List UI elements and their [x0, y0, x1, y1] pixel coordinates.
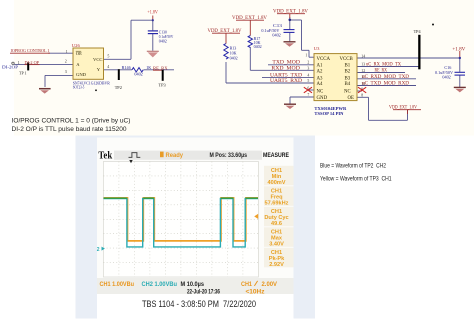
svg-text:7: 7 [307, 93, 309, 97]
svg-text:CH1: CH1 [241, 281, 252, 288]
svg-text:0.1uF/50V: 0.1uF/50V [159, 35, 174, 39]
svg-text:8: 8 [361, 94, 363, 98]
svg-text:GND: GND [76, 72, 87, 77]
svg-text:0402: 0402 [159, 40, 167, 44]
svg-text:RE_RX: RE_RX [375, 69, 388, 74]
svg-text:2.00V: 2.00V [262, 281, 278, 288]
svg-text:1: 1 [305, 54, 307, 58]
svg-text:TP3: TP3 [159, 83, 166, 88]
svg-text:SOT23-5: SOT23-5 [73, 84, 85, 89]
svg-text:0402: 0402 [230, 56, 238, 61]
svg-text:TSSOP 14 PIN: TSSOP 14 PIN [314, 111, 344, 116]
svg-text:12: 12 [361, 69, 365, 73]
svg-text:NC: NC [317, 89, 324, 94]
svg-text:13: 13 [361, 63, 365, 67]
svg-text:Blue = Waveform of TP2 CH2: Blue = Waveform of TP2 CH2 [320, 162, 386, 169]
svg-text:22-Jul-20 17:36: 22-Jul-20 17:36 [187, 289, 221, 295]
svg-text:2.92V: 2.92V [269, 262, 284, 268]
svg-text:IO/PROG CONTROL 1 = 0 (Drive b: IO/PROG CONTROL 1 = 0 (Drive by uC) [12, 117, 131, 124]
svg-text:B4: B4 [345, 82, 351, 87]
svg-text:VDD_EXT_1.8V: VDD_EXT_1.8V [273, 10, 309, 15]
svg-text:3.40V: 3.40V [269, 242, 284, 248]
svg-text:RE_RX: RE_RX [153, 65, 168, 70]
svg-text:B2: B2 [345, 70, 351, 75]
svg-text:U26: U26 [72, 43, 80, 48]
svg-text:uC_RXD_MOD_TXD: uC_RXD_MOD_TXD [362, 75, 410, 80]
svg-text:M 10.0µs: M 10.0µs [181, 281, 205, 288]
svg-text:TP 1: TP 1 [19, 70, 27, 75]
svg-text:UART5_RXD: UART5_RXD [270, 79, 303, 84]
svg-text:TBS 1104 - 3:08:50 PM 7/22/20: TBS 1104 - 3:08:50 PM 7/22/2020 [142, 299, 256, 309]
svg-text:14: 14 [361, 54, 365, 58]
svg-text:4: 4 [107, 64, 109, 69]
svg-text:UART5_TXD: UART5_TXD [270, 73, 303, 78]
svg-text:+1.8V: +1.8V [147, 11, 158, 16]
svg-text:U3: U3 [314, 46, 320, 51]
svg-text:A4: A4 [317, 82, 324, 87]
svg-text:A3: A3 [317, 76, 324, 81]
svg-text:Tek: Tek [98, 150, 112, 161]
svg-text:Ready: Ready [166, 152, 184, 159]
svg-text:2: 2 [97, 247, 100, 253]
svg-text:5: 5 [107, 54, 109, 59]
svg-text:2: 2 [65, 59, 67, 64]
svg-text:B3: B3 [345, 76, 351, 81]
svg-text:C130: C130 [159, 30, 167, 34]
svg-text:uC_RX_MOD_TX: uC_RX_MOD_TX [366, 62, 402, 67]
svg-text:DI-2 OP: DI-2 OP [25, 60, 40, 65]
svg-text:M Pos: 33.60µs: M Pos: 33.60µs [210, 152, 248, 159]
svg-text:VDD_EXT_1.8V: VDD_EXT_1.8V [232, 16, 268, 21]
svg-text:TP2: TP2 [115, 85, 122, 90]
svg-text:OE: OE [76, 51, 82, 56]
svg-text:Yellow = Waveform of TP3 CH1: Yellow = Waveform of TP3 CH1 [320, 176, 392, 183]
svg-text:CH1 1.00VBu: CH1 1.00VBu [100, 281, 135, 288]
svg-text:VCC: VCC [93, 57, 102, 62]
svg-text:B1: B1 [345, 64, 351, 69]
svg-text:<10Hz: <10Hz [246, 289, 265, 295]
svg-text:DI-2OP: DI-2OP [2, 64, 18, 69]
svg-text:4: 4 [307, 73, 309, 77]
svg-text:TXD_MOD: TXD_MOD [272, 61, 300, 66]
svg-text:R146: R146 [122, 65, 131, 70]
svg-text:+1.8V: +1.8V [452, 47, 466, 52]
svg-text:2: 2 [307, 61, 309, 65]
svg-text:OE: OE [348, 96, 355, 101]
svg-text:3: 3 [307, 67, 309, 71]
svg-text:RXD_MOD: RXD_MOD [271, 67, 300, 72]
svg-text:0402: 0402 [254, 44, 262, 49]
svg-text:VDD_EXT_1.8V: VDD_EXT_1.8V [208, 29, 243, 34]
svg-text:A2: A2 [317, 70, 324, 75]
svg-text:IOPROG CONTROL 1: IOPROG CONTROL 1 [11, 48, 51, 53]
svg-text:NC: NC [344, 89, 351, 94]
svg-text:400mV: 400mV [267, 180, 285, 186]
svg-text:0402: 0402 [442, 75, 450, 80]
svg-text:A1: A1 [317, 64, 324, 69]
svg-text:57.69kHz: 57.69kHz [265, 201, 289, 207]
svg-text:uC_TXD_MOD_RXD: uC_TXD_MOD_RXD [362, 82, 410, 87]
svg-text:1K: 1K [146, 65, 151, 70]
svg-text:49.6: 49.6 [271, 221, 282, 227]
svg-text:TP4: TP4 [414, 29, 422, 34]
svg-text:GND: GND [317, 96, 328, 101]
svg-text:VDD_EXT_1.8V: VDD_EXT_1.8V [389, 106, 417, 111]
svg-text:MEASURE: MEASURE [263, 152, 289, 159]
svg-text:3: 3 [65, 69, 67, 74]
svg-text:CH2 1.00VBu: CH2 1.00VBu [142, 281, 178, 288]
svg-text:1: 1 [66, 49, 68, 54]
svg-text:5: 5 [307, 79, 309, 83]
svg-text:VCCB: VCCB [340, 57, 354, 62]
svg-text:0402: 0402 [134, 71, 142, 76]
svg-text:VCCA: VCCA [317, 57, 331, 62]
svg-text:0402: 0402 [272, 33, 280, 38]
svg-text:DI-2 O/P is TTL pulse baud rat: DI-2 O/P is TTL pulse baud rate 115200 [12, 126, 127, 133]
